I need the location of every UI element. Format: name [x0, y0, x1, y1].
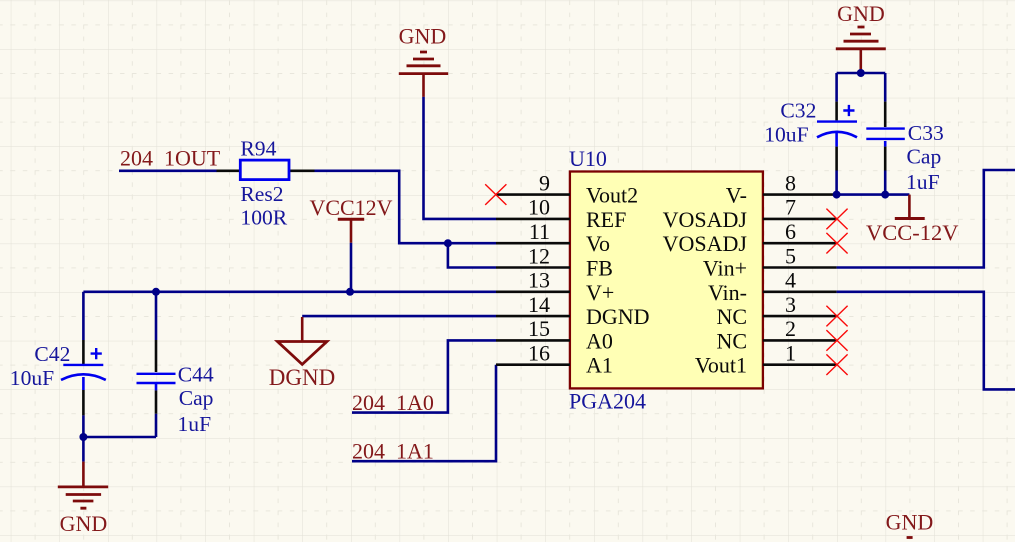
wire junction to pin 12 FB: [448, 243, 496, 267]
svg-text:10uF: 10uF: [764, 122, 808, 146]
svg-text:VOSADJ: VOSADJ: [663, 231, 748, 256]
svg-text:VCC-12V: VCC-12V: [866, 220, 959, 245]
wire net 1OUT to R94: [119, 170, 217, 173]
op-amp IC U10 PGA204 body: [569, 146, 763, 413]
svg-text:U10: U10: [569, 146, 607, 171]
svg-text:12: 12: [528, 243, 550, 268]
wire V- rail: [837, 193, 910, 196]
svg-text:8: 8: [785, 170, 796, 195]
svg-text:PGA204: PGA204: [569, 388, 646, 413]
svg-text:10uF: 10uF: [10, 366, 54, 390]
svg-text:NC: NC: [716, 328, 747, 353]
svg-text:GND: GND: [60, 511, 108, 536]
ground DGND: [269, 317, 335, 390]
svg-text:Vout1: Vout1: [695, 353, 747, 378]
capacitor C42: [10, 292, 106, 437]
no-connect X pin 6: [826, 233, 847, 254]
svg-text:1uF: 1uF: [178, 412, 212, 436]
pin 9 Vout2: [496, 170, 638, 207]
pin 13 V+: [496, 268, 614, 305]
net label 204_1A0: [352, 390, 434, 415]
junction node C33 pin8: [881, 191, 889, 199]
pin 10 REF: [496, 195, 626, 232]
junction node GND rail: [79, 433, 87, 441]
net label 204_1A1: [352, 439, 434, 464]
pin 14 DGND: [496, 292, 650, 329]
svg-text:14: 14: [528, 292, 550, 317]
svg-text:5: 5: [785, 243, 796, 268]
svg-text:9: 9: [539, 170, 550, 195]
wire V+ rail: [83, 290, 496, 293]
svg-text:1: 1: [785, 341, 796, 366]
svg-text:7: 7: [785, 195, 796, 220]
wire to GND bottom: [82, 437, 85, 462]
svg-text:100R: 100R: [240, 205, 287, 229]
svg-text:Vin-: Vin-: [708, 280, 747, 305]
pin 1 Vout1: [695, 341, 837, 378]
wire GND to pin 10 REF: [424, 97, 497, 219]
capacitor C32: [764, 73, 857, 195]
svg-text:15: 15: [528, 316, 550, 341]
ground GND bottom right: [886, 510, 934, 538]
svg-text:Cap: Cap: [179, 386, 214, 410]
svg-text:Vin+: Vin+: [703, 256, 747, 281]
power VCC-12V: [866, 195, 959, 246]
svg-text:V+: V+: [586, 280, 614, 305]
resistor R94: [217, 136, 315, 229]
svg-text:10: 10: [528, 195, 550, 220]
svg-text:C44: C44: [178, 363, 214, 387]
pin 5 Vin+: [703, 243, 837, 280]
svg-text:Vout2: Vout2: [586, 183, 638, 208]
svg-text:3: 3: [785, 292, 796, 317]
wire GND header to caps: [837, 72, 886, 75]
no-connect X pin 2: [826, 330, 847, 351]
ground GND bottom left: [58, 462, 108, 536]
svg-text:Cap: Cap: [907, 145, 942, 169]
svg-text:NC: NC: [716, 304, 747, 329]
svg-text:1uF: 1uF: [906, 170, 940, 194]
svg-text:GND: GND: [399, 24, 447, 49]
junction node VCC12V on rail: [346, 288, 354, 296]
svg-text:13: 13: [528, 268, 550, 293]
svg-text:DGND: DGND: [269, 365, 335, 390]
svg-text:4: 4: [785, 268, 796, 293]
svg-text:2: 2: [785, 316, 796, 341]
svg-text:6: 6: [785, 219, 796, 244]
pin 6 VOSADJ: [663, 219, 837, 256]
wire 1A0 to pin 15 A0: [352, 340, 496, 412]
junction node C44 on rail: [152, 288, 160, 296]
svg-text:GND: GND: [886, 510, 934, 535]
capacitor C44: [137, 292, 214, 437]
no-connect X pin 1: [826, 354, 847, 375]
wire bottom rail C42-C44: [83, 436, 156, 439]
svg-text:GND: GND: [837, 1, 885, 26]
svg-text:DGND: DGND: [586, 304, 650, 329]
capacitor C33: [866, 73, 944, 195]
ground GND top right: [836, 1, 886, 73]
junction node C32 pin8: [833, 191, 841, 199]
svg-text:16: 16: [528, 341, 550, 366]
pin 15 A0: [496, 316, 613, 353]
svg-text:C32: C32: [780, 99, 816, 123]
wire pin 14 DGND: [302, 315, 496, 318]
net label 204_1OUT: [120, 145, 221, 170]
pin 7 VOSADJ: [663, 195, 837, 232]
pin 12 FB: [496, 243, 613, 280]
pin 8 V-: [726, 170, 837, 207]
wire 1A1 to pin 16 A1: [352, 365, 496, 462]
svg-text:Vo: Vo: [586, 231, 610, 256]
ground GND top center: [399, 24, 449, 97]
junction node GND caps: [857, 69, 865, 77]
svg-text:REF: REF: [586, 207, 626, 232]
svg-text:V-: V-: [726, 183, 747, 208]
svg-text:A1: A1: [586, 353, 613, 378]
pin 3 NC: [716, 292, 836, 329]
svg-text:11: 11: [529, 219, 550, 244]
no-connect X pin 7: [826, 209, 847, 230]
svg-text:204_1A1: 204_1A1: [352, 439, 434, 464]
svg-text:Res2: Res2: [240, 182, 283, 206]
junction node Vo/FB: [444, 239, 452, 247]
pin 4 Vin-: [708, 268, 837, 305]
svg-text:204 1OUT: 204 1OUT: [120, 145, 221, 170]
svg-text:VOSADJ: VOSADJ: [663, 207, 748, 232]
svg-text:A0: A0: [586, 328, 613, 353]
svg-text:C33: C33: [908, 121, 944, 145]
wire VCC12V to V+ rail: [350, 243, 353, 292]
pin 2 NC: [716, 316, 836, 353]
wire pin 5 Vin+ out: [837, 170, 1015, 268]
svg-text:C42: C42: [34, 342, 70, 366]
pin 11 Vo: [496, 219, 610, 256]
wire R94 to pin 11: [315, 171, 497, 243]
no-connect X pin 9: [485, 184, 506, 205]
power VCC12V: [309, 195, 392, 243]
pin 16 A1: [496, 341, 613, 378]
no-connect X pin 3: [826, 306, 847, 327]
svg-text:204_1A0: 204_1A0: [352, 390, 434, 415]
svg-text:R94: R94: [240, 136, 276, 160]
svg-text:FB: FB: [586, 256, 613, 281]
svg-text:VCC12V: VCC12V: [309, 195, 392, 220]
wire pin 4 Vin- out: [837, 292, 1015, 390]
